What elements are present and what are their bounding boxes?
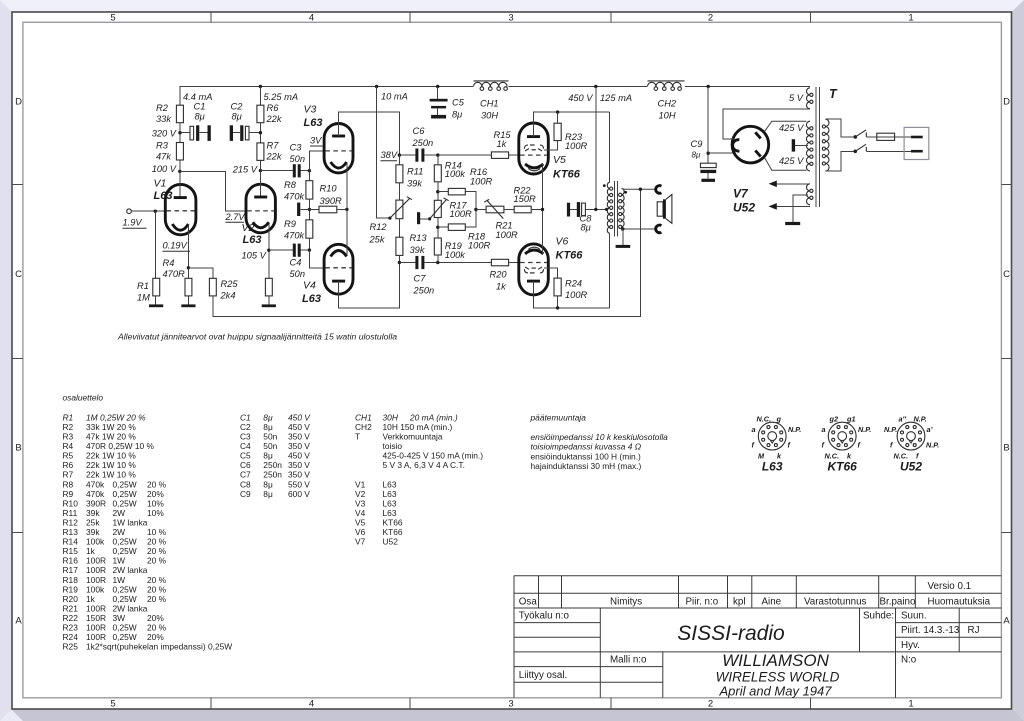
svg-text:a’: a’ bbox=[927, 425, 934, 434]
node R13 C7 V4 anode bbox=[398, 261, 401, 264]
resistor R11 bbox=[396, 165, 403, 183]
svg-text:25k: 25k bbox=[369, 235, 386, 245]
svg-text:R19: R19 bbox=[63, 584, 79, 594]
speaker voice coil box bbox=[657, 202, 663, 216]
resistor R6 bbox=[257, 105, 264, 123]
capacitor C6 plate left bbox=[415, 149, 418, 162]
svg-text:KT66: KT66 bbox=[383, 517, 403, 527]
svg-text:22k: 22k bbox=[266, 152, 283, 162]
tube V6 anode bbox=[527, 280, 540, 283]
bottom shadow strip bbox=[11, 709, 1024, 721]
svg-text:C9: C9 bbox=[240, 489, 251, 499]
arrow heater top bbox=[769, 181, 777, 188]
svg-text:470R 0,25W 10 %: 470R 0,25W 10 % bbox=[86, 441, 155, 451]
node C8 450V bbox=[594, 208, 597, 211]
speaker driver front bar bbox=[663, 199, 666, 218]
svg-text:4.4 mA: 4.4 mA bbox=[183, 92, 212, 102]
svg-text:250n: 250n bbox=[413, 286, 435, 296]
svg-text:100R: 100R bbox=[468, 241, 491, 251]
svg-text:C5: C5 bbox=[452, 98, 465, 108]
node bracket R21 bbox=[474, 208, 477, 211]
wire HV centre tap bbox=[795, 144, 808, 146]
svg-text:4: 4 bbox=[309, 13, 314, 24]
node R23 top bbox=[556, 110, 559, 113]
svg-text:R23: R23 bbox=[63, 623, 79, 633]
resistor R15 bbox=[491, 152, 508, 159]
transformer T 5V winding bbox=[807, 88, 810, 109]
svg-text:250n: 250n bbox=[263, 470, 282, 480]
svg-text:L63: L63 bbox=[762, 460, 783, 474]
svg-text:8μ: 8μ bbox=[232, 112, 242, 122]
svg-text:3V: 3V bbox=[310, 136, 322, 146]
svg-text:R12: R12 bbox=[370, 222, 388, 232]
node R16 branch bbox=[436, 190, 439, 193]
wire 6.3V centre tap to ground bbox=[793, 195, 808, 222]
wire R19 bottom bbox=[437, 255, 439, 263]
svg-text:R16: R16 bbox=[63, 556, 79, 566]
wire rail to R6 bbox=[259, 87, 261, 106]
wire V7 anode1 to HV winding top bbox=[765, 121, 807, 131]
svg-text:8μ: 8μ bbox=[452, 110, 462, 120]
wire R17 to R19 bbox=[437, 218, 439, 239]
svg-text:8μ: 8μ bbox=[263, 479, 273, 489]
svg-text:U52: U52 bbox=[900, 460, 922, 474]
svg-text:V1: V1 bbox=[154, 178, 167, 190]
svg-text:8μ: 8μ bbox=[195, 112, 205, 122]
svg-text:R12: R12 bbox=[63, 517, 79, 527]
svg-text:8μ: 8μ bbox=[692, 151, 701, 160]
tube V1 envelope bbox=[165, 184, 196, 234]
wire R16 to bracket bbox=[465, 192, 476, 210]
capacitor C4 plate left bbox=[293, 244, 296, 257]
svg-text:V4: V4 bbox=[355, 508, 366, 518]
wire R22 to cathode bus bbox=[531, 209, 542, 211]
capacitor C5 stub bbox=[437, 108, 439, 115]
capacitor C1 plate hollow bbox=[190, 126, 194, 140]
svg-text:R24: R24 bbox=[565, 279, 582, 289]
svg-text:N.C.: N.C. bbox=[757, 415, 772, 424]
svg-text:33k 1W 20 %: 33k 1W 20 % bbox=[86, 422, 136, 432]
svg-text:päätemuuntaja: päätemuuntaja bbox=[530, 413, 587, 423]
capacitor C3 plate right bbox=[298, 164, 301, 177]
wire R25 to feedback line bbox=[213, 189, 641, 316]
svg-text:350 V: 350 V bbox=[288, 470, 310, 480]
svg-text:105 V: 105 V bbox=[242, 251, 267, 261]
svg-text:T: T bbox=[355, 432, 360, 442]
svg-text:KT66: KT66 bbox=[553, 169, 581, 181]
ground bar R17 wiper bbox=[417, 212, 420, 224]
svg-text:1k2*sqrt(puhekelan impedanssi): 1k2*sqrt(puhekelan impedanssi) 0,25W bbox=[86, 642, 232, 652]
svg-text:R9: R9 bbox=[284, 219, 296, 229]
svg-text:CH2: CH2 bbox=[658, 99, 677, 109]
node V1 grid / R1 bbox=[154, 210, 157, 213]
svg-text:550 V: 550 V bbox=[288, 479, 310, 489]
svg-text:R2: R2 bbox=[63, 422, 74, 432]
svg-text:Piir. n:o: Piir. n:o bbox=[686, 597, 719, 608]
wire 215V node to C3 bbox=[260, 170, 292, 172]
node C2 junction bbox=[259, 131, 262, 134]
svg-text:R15: R15 bbox=[63, 546, 79, 556]
potentiometer R17 bbox=[434, 200, 441, 217]
svg-text:100R0,25W20%: 100R0,25W20% bbox=[86, 632, 164, 642]
svg-text:CH1: CH1 bbox=[355, 412, 372, 422]
node 38V bbox=[398, 153, 401, 156]
svg-text:L63: L63 bbox=[383, 489, 397, 499]
svg-text:L63: L63 bbox=[304, 117, 323, 129]
svg-text:250n: 250n bbox=[412, 138, 434, 148]
svg-text:100 V: 100 V bbox=[152, 164, 177, 174]
wire HT+ main rail bbox=[180, 87, 810, 106]
svg-text:C5: C5 bbox=[240, 451, 251, 461]
tube V4 anode bbox=[332, 280, 345, 283]
svg-text:R21: R21 bbox=[63, 603, 79, 613]
svg-text:320 V: 320 V bbox=[152, 129, 177, 139]
svg-text:A: A bbox=[15, 616, 22, 627]
node R12 wiper bbox=[388, 217, 391, 220]
svg-text:470k0,25W20%: 470k0,25W20% bbox=[86, 489, 164, 499]
svg-text:B: B bbox=[15, 443, 21, 454]
node C9 V7 bbox=[707, 152, 710, 155]
svg-text:22k 1W 10 %: 22k 1W 10 % bbox=[86, 470, 136, 480]
svg-text:C7: C7 bbox=[240, 470, 251, 480]
svg-text:Aine: Aine bbox=[762, 597, 782, 608]
tube V6 heater arc bbox=[528, 247, 540, 249]
wire V7 anode2 to HV winding bottom bbox=[765, 158, 807, 170]
resistor R14 bbox=[434, 165, 441, 182]
wire R8 bottom to R10 node bbox=[308, 199, 310, 220]
svg-text:Työkalu n:o: Työkalu n:o bbox=[519, 611, 570, 622]
svg-text:R17: R17 bbox=[63, 565, 79, 575]
capacitor C2 plate solid bbox=[240, 125, 243, 141]
svg-text:N.P.: N.P. bbox=[914, 415, 927, 424]
wire switch to plug bbox=[866, 150, 911, 152]
ground R4 bbox=[181, 304, 195, 307]
svg-text:125 mA: 125 mA bbox=[600, 93, 632, 103]
svg-text:50n: 50n bbox=[290, 154, 306, 164]
wire secondary to ground bbox=[622, 229, 624, 245]
capacitor C1 plate solid bbox=[196, 125, 199, 141]
svg-text:L63: L63 bbox=[154, 190, 173, 202]
svg-text:R20: R20 bbox=[63, 594, 79, 604]
svg-text:100R2W lanka: 100R2W lanka bbox=[86, 603, 148, 613]
tube V4 cathode lead bbox=[346, 209, 348, 255]
wire bracket to R21 bbox=[476, 209, 486, 211]
tube V3 grid dashes bbox=[325, 150, 352, 152]
svg-text:Varastotunnus: Varastotunnus bbox=[804, 597, 867, 608]
svg-text:R4: R4 bbox=[63, 441, 74, 451]
svg-text:50n: 50n bbox=[263, 432, 277, 442]
wire 5V winding to V7 filament bbox=[723, 109, 810, 139]
svg-text:350 V: 350 V bbox=[288, 460, 310, 470]
svg-text:L63: L63 bbox=[383, 498, 397, 508]
svg-text:30H20 mA (min.): 30H20 mA (min.) bbox=[383, 412, 458, 422]
svg-text:V1: V1 bbox=[355, 479, 366, 489]
transformer T core bbox=[815, 87, 817, 207]
svg-text:R11: R11 bbox=[63, 508, 78, 518]
svg-text:100R: 100R bbox=[450, 209, 473, 219]
wire V1 cathode to R4 bbox=[187, 268, 189, 279]
svg-text:39k: 39k bbox=[407, 179, 423, 189]
arrow heater bottom bbox=[769, 203, 777, 210]
svg-text:R3: R3 bbox=[63, 432, 74, 442]
wire node to C7 bbox=[399, 262, 415, 264]
svg-text:hajainduktanssi 30 mH (max.): hajainduktanssi 30 mH (max.) bbox=[531, 461, 642, 471]
svg-text:470k: 470k bbox=[284, 192, 306, 202]
node R17 wiper bbox=[428, 217, 431, 220]
capacitor C1 wire from 320V node bbox=[180, 132, 190, 134]
wire to R18 bbox=[438, 226, 449, 228]
svg-text:N.P.: N.P. bbox=[926, 441, 939, 450]
svg-text:N.P.: N.P. bbox=[788, 425, 801, 434]
wire C3 to node bbox=[301, 170, 310, 172]
switch lower pole bbox=[854, 150, 858, 154]
svg-text:50n: 50n bbox=[290, 269, 306, 279]
svg-text:1k: 1k bbox=[496, 282, 507, 292]
transformer T 6.3V winding bbox=[807, 184, 810, 205]
svg-text:C1: C1 bbox=[240, 412, 251, 422]
tube V6 cathode (top, inverted) bbox=[525, 250, 543, 254]
wire to R16 bbox=[438, 191, 449, 193]
svg-text:V5: V5 bbox=[355, 517, 366, 527]
svg-text:5.25 mA: 5.25 mA bbox=[264, 92, 299, 102]
inductor CH2 loops bbox=[648, 82, 682, 86]
svg-text:ensiöimpedanssi 10 k keskiulos: ensiöimpedanssi 10 k keskiulosotolla bbox=[531, 432, 669, 442]
tube V3 anode lead and wire to 38V node bbox=[339, 112, 400, 155]
wire R4 to ground bbox=[187, 296, 189, 305]
wire R23 top bbox=[557, 112, 559, 123]
frame tick marks right bbox=[1001, 184, 1011, 186]
svg-text:R1: R1 bbox=[137, 281, 149, 291]
capacitor C2 ground plate bbox=[230, 125, 233, 141]
svg-text:100R: 100R bbox=[565, 141, 588, 151]
svg-text:450 V: 450 V bbox=[568, 93, 593, 103]
resistor R22 bbox=[514, 206, 531, 213]
svg-text:100k0,25W20 %: 100k0,25W20 % bbox=[86, 537, 167, 547]
svg-text:R6: R6 bbox=[63, 460, 74, 470]
svg-text:2: 2 bbox=[708, 699, 713, 710]
tube V1 anode lead from 100V node bbox=[179, 171, 181, 196]
svg-text:R9: R9 bbox=[63, 489, 74, 499]
svg-text:CH2: CH2 bbox=[355, 422, 372, 432]
svg-text:425 V: 425 V bbox=[779, 156, 804, 166]
svg-text:R7: R7 bbox=[63, 470, 74, 480]
ground R5 bbox=[262, 304, 276, 307]
tube V5 screen grid with hooks bbox=[524, 145, 543, 149]
wire R2 to 320V node bbox=[179, 123, 181, 143]
svg-text:R7: R7 bbox=[267, 141, 280, 151]
wire R8 top bbox=[308, 171, 310, 181]
wire 6.3V top arrow bbox=[776, 183, 811, 185]
svg-text:V7: V7 bbox=[733, 187, 749, 201]
svg-text:D: D bbox=[15, 97, 22, 108]
tube V7 filament arc bbox=[733, 140, 740, 151]
svg-text:CH1: CH1 bbox=[480, 99, 499, 109]
tube V5 cathode lead bbox=[542, 164, 544, 210]
mains plug pin upper bbox=[911, 136, 923, 139]
svg-text:5: 5 bbox=[110, 699, 115, 710]
speaker terminal bottom bbox=[656, 225, 662, 233]
potentiometer R21 bbox=[486, 206, 504, 213]
tube V1 grid dashes bbox=[167, 210, 195, 212]
node R8 R9 R10 bbox=[308, 208, 311, 211]
wire R5 to ground bbox=[268, 296, 270, 305]
tube V1 cathode lead bbox=[187, 225, 189, 268]
svg-text:g1: g1 bbox=[846, 415, 856, 424]
node 215V bbox=[259, 169, 262, 172]
svg-text:Malli n:o: Malli n:o bbox=[610, 655, 647, 666]
potentiometer R21 wiper arrow bbox=[484, 199, 503, 218]
svg-text:450 V: 450 V bbox=[288, 451, 310, 461]
svg-text:100k: 100k bbox=[445, 250, 467, 260]
svg-text:450 V: 450 V bbox=[288, 412, 311, 422]
wire R21 to R22 bbox=[504, 209, 514, 211]
svg-text:L63: L63 bbox=[302, 293, 321, 305]
svg-text:V6: V6 bbox=[556, 236, 569, 248]
speaker cone bbox=[666, 194, 672, 223]
svg-text:5 V: 5 V bbox=[789, 93, 804, 103]
capacitor C5 plate top bbox=[430, 99, 448, 102]
svg-text:KT66: KT66 bbox=[383, 527, 403, 537]
svg-text:33k: 33k bbox=[156, 114, 172, 124]
svg-text:100R0,25W20 %: 100R0,25W20 % bbox=[86, 623, 167, 633]
svg-text:8μ: 8μ bbox=[263, 489, 273, 499]
svg-text:1k: 1k bbox=[497, 139, 508, 149]
svg-text:8μ: 8μ bbox=[263, 412, 273, 422]
wire V3 grid bbox=[309, 151, 324, 171]
tube V1 cathode bbox=[172, 224, 188, 230]
resistor R10 bbox=[319, 206, 337, 213]
svg-text:350 V: 350 V bbox=[288, 432, 310, 442]
tube V6 screen grid with hooks bbox=[524, 269, 543, 273]
wire primary bottom to switch bbox=[825, 151, 855, 171]
wire R6 to R7 bbox=[259, 123, 261, 143]
potentiometer R17 wiper arrow bbox=[430, 198, 449, 219]
parts list resistors column bbox=[63, 412, 233, 651]
wire R1 to ground bbox=[154, 296, 156, 305]
tube V4 anode lead to R13 node bbox=[339, 263, 400, 308]
resistor R23 bbox=[554, 123, 561, 140]
tube V5 envelope bbox=[519, 123, 549, 174]
capacitor C8 ground plate bbox=[567, 203, 570, 217]
svg-text:2k4: 2k4 bbox=[220, 291, 236, 301]
svg-text:R20: R20 bbox=[490, 270, 508, 280]
capacitor C2 plate hollow bbox=[245, 126, 249, 140]
socket KT66 bbox=[822, 415, 872, 474]
mains plug body bbox=[904, 127, 929, 159]
wire R7 to 215V node bbox=[259, 160, 261, 170]
svg-text:Alleviivatut jännitearvot ovat: Alleviivatut jännitearvot ovat huippu si… bbox=[117, 332, 397, 342]
frame tick marks left bbox=[12, 184, 23, 186]
tube V2 anode bbox=[254, 196, 267, 199]
right shadow strip bbox=[1012, 0, 1024, 721]
parts list capacitors column bbox=[240, 412, 311, 498]
wire secondary bottom to speaker bbox=[623, 228, 656, 230]
svg-text:C6: C6 bbox=[413, 126, 426, 136]
node secondary ground bbox=[621, 227, 624, 230]
svg-text:R21: R21 bbox=[496, 221, 513, 231]
wire 100V node to V2 grid bbox=[180, 171, 246, 211]
svg-text:ensiöinduktanssi 100 H (min.): ensiöinduktanssi 100 H (min.) bbox=[531, 451, 642, 461]
svg-text:470R: 470R bbox=[163, 269, 186, 279]
svg-text:250n: 250n bbox=[263, 460, 282, 470]
node rail junction 450V bbox=[594, 85, 597, 88]
tube V2 grid dashes bbox=[247, 210, 274, 212]
svg-text:2.7V: 2.7V bbox=[225, 212, 246, 222]
svg-text:C6: C6 bbox=[240, 460, 251, 470]
svg-text:SISSI-radio: SISSI-radio bbox=[677, 622, 785, 645]
wire ground to R17 wiper bbox=[420, 218, 429, 220]
svg-text:C2: C2 bbox=[240, 422, 251, 432]
wire cathode node to R25 bbox=[188, 268, 212, 279]
resistor R20 bbox=[491, 259, 508, 266]
node rail junction V7 bbox=[707, 85, 710, 88]
svg-text:toisioimpedanssi kuvassa 4 Ω: toisioimpedanssi kuvassa 4 Ω bbox=[531, 442, 642, 452]
svg-text:1M 0,25W 20 %: 1M 0,25W 20 % bbox=[86, 412, 146, 422]
tube V7 anode 1 bbox=[755, 132, 760, 138]
svg-text:R4: R4 bbox=[163, 258, 175, 268]
svg-text:100R2W lanka: 100R2W lanka bbox=[86, 565, 148, 575]
capacitor C8 plate hollow bbox=[582, 203, 586, 216]
capacitor C7 plate left bbox=[415, 256, 418, 269]
input terminal bbox=[127, 209, 132, 214]
svg-text:100R: 100R bbox=[565, 290, 588, 300]
svg-text:2: 2 bbox=[708, 13, 713, 24]
capacitor C5 plate bottom bbox=[431, 106, 446, 109]
svg-text:R22: R22 bbox=[63, 613, 79, 623]
wire R20 to V6 grid bbox=[509, 262, 520, 264]
wire 38V node to C6 bbox=[399, 154, 415, 156]
wire V7 cathode bbox=[708, 152, 734, 154]
svg-text:8μ: 8μ bbox=[581, 223, 591, 233]
tube V7 anode 2 bbox=[755, 150, 760, 156]
wire V6 screen to R24 bbox=[544, 268, 558, 278]
svg-text:470k0,25W20 %: 470k0,25W20 % bbox=[86, 479, 167, 489]
capacitor C1 wire bbox=[199, 132, 207, 134]
svg-text:Hyv.: Hyv. bbox=[901, 640, 920, 651]
capacitor C1 ground plate bbox=[208, 125, 211, 141]
svg-text:N.P.: N.P. bbox=[858, 425, 871, 434]
capacitor C2 wire to R6 node bbox=[249, 132, 260, 134]
svg-text:C3: C3 bbox=[240, 432, 251, 442]
svg-text:5: 5 bbox=[110, 13, 115, 24]
wire rail to C9 and V7 bbox=[707, 87, 709, 164]
svg-text:390R0,25W10%: 390R0,25W10% bbox=[86, 498, 164, 508]
svg-text:100R: 100R bbox=[496, 230, 519, 240]
inductor CH2 core line bbox=[648, 80, 685, 82]
svg-text:R24: R24 bbox=[63, 632, 79, 642]
svg-text:g2: g2 bbox=[829, 415, 839, 424]
svg-text:C: C bbox=[15, 269, 22, 280]
svg-text:C2: C2 bbox=[231, 102, 244, 112]
svg-text:8μ: 8μ bbox=[263, 451, 273, 461]
wire R10 to cathode line bbox=[337, 208, 347, 210]
capacitor C8 plate solid bbox=[577, 202, 580, 217]
wire R12 to R13 bbox=[398, 219, 400, 238]
ground C9 bbox=[701, 179, 715, 182]
resistor R5 unlabeled bbox=[265, 278, 272, 296]
resistor R3 bbox=[176, 143, 183, 161]
ground C5 bbox=[431, 115, 446, 119]
ground 6.3V centre tap bbox=[785, 222, 800, 225]
wire primary top to switch bbox=[825, 119, 855, 137]
node cathode bus R22 bbox=[541, 208, 544, 211]
svg-text:V5: V5 bbox=[553, 154, 566, 166]
tube V3 envelope bbox=[324, 124, 353, 173]
left bevel strip bbox=[0, 0, 12, 721]
wire V4 grid bbox=[309, 250, 324, 268]
node C3 R8 V3grid bbox=[308, 169, 311, 172]
svg-text:B: B bbox=[1003, 443, 1009, 454]
